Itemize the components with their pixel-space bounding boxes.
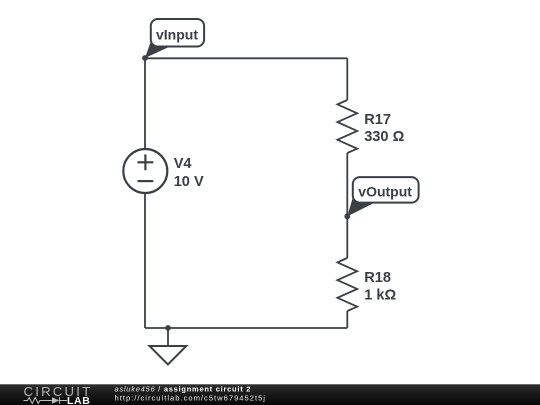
- svg-text:asluke456 / assignment circuit: asluke456 / assignment circuit 2: [115, 384, 252, 393]
- svg-text:vOutput: vOutput: [358, 183, 412, 199]
- svg-text:V4: V4: [174, 156, 193, 172]
- svg-text:330 Ω: 330 Ω: [364, 129, 404, 145]
- svg-text:http://circuitlab.com/c5tw6794: http://circuitlab.com/c5tw679452t5j: [115, 393, 267, 402]
- svg-text:vInput: vInput: [156, 26, 198, 42]
- svg-text:R17: R17: [364, 112, 391, 128]
- svg-text:1 kΩ: 1 kΩ: [364, 287, 396, 303]
- svg-text:R18: R18: [364, 270, 391, 286]
- svg-text:10 V: 10 V: [174, 174, 204, 190]
- svg-text:LAB: LAB: [67, 395, 90, 405]
